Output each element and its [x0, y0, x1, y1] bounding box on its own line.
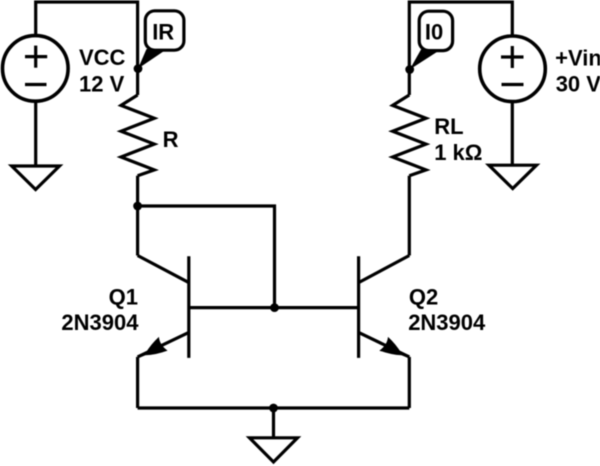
transistor Q2: [359, 256, 410, 359]
ground GND3 right: [489, 165, 537, 188]
label Q2 2N3904: [408, 284, 486, 334]
resistor R: [121, 95, 154, 176]
resistor RL: [393, 95, 426, 176]
svg-text:2N3904: 2N3904: [408, 310, 486, 335]
ground GND2 bottom: [250, 438, 298, 462]
probe flag IR: [138, 11, 184, 69]
label +Vin 30 V: [555, 46, 600, 97]
wire Vin to ground: [511, 101, 514, 166]
ground GND1: [12, 166, 60, 190]
wire node A to base rail: [138, 206, 275, 308]
svg-text:IR: IR: [152, 20, 174, 45]
wire Q1 emitter down: [136, 357, 139, 408]
svg-text:1 kΩ: 1 kΩ: [434, 140, 482, 165]
wire bottom emitter rail: [138, 406, 410, 409]
wire R bottom to node A: [136, 176, 139, 206]
svg-text:RL: RL: [434, 114, 463, 139]
svg-text:+Vin: +Vin: [555, 46, 600, 71]
svg-text:Q2: Q2: [409, 284, 438, 309]
wire base rail Q1 to Q2: [189, 306, 359, 309]
label Q1 2N3904: [61, 284, 139, 334]
svg-text:Q1: Q1: [109, 284, 138, 309]
node bottom rail junction dot: [269, 404, 278, 413]
wire Q2 emitter down: [408, 357, 411, 408]
transistor Q1: [137, 256, 189, 359]
wire VCC to ground: [34, 101, 37, 167]
svg-text:30 V: 30 V: [556, 72, 600, 97]
label VCC 12 V: [79, 45, 126, 96]
node base rail junction dot: [270, 303, 279, 312]
wire Q2 collector up to RL: [408, 176, 411, 256]
wire node A down to Q1 collector: [136, 206, 139, 256]
wire top-left rail: [36, 2, 138, 95]
svg-text:VCC: VCC: [79, 45, 126, 70]
node I0 junction dot: [405, 65, 414, 74]
svg-text:R: R: [163, 127, 179, 152]
svg-text:2N3904: 2N3904: [61, 310, 139, 335]
label RL 1 kOhm: [434, 114, 482, 165]
probe flag I0: [410, 11, 453, 69]
wire top-right rail: [409, 2, 512, 95]
voltage source V1 VCC: [3, 36, 69, 102]
node A below R junction dot: [133, 202, 142, 211]
svg-text:12 V: 12 V: [79, 72, 125, 97]
wire bottom rail to ground: [272, 408, 275, 439]
node IR junction dot: [134, 64, 143, 73]
voltage source V2 +Vin: [480, 36, 546, 102]
svg-text:I0: I0: [425, 20, 443, 45]
